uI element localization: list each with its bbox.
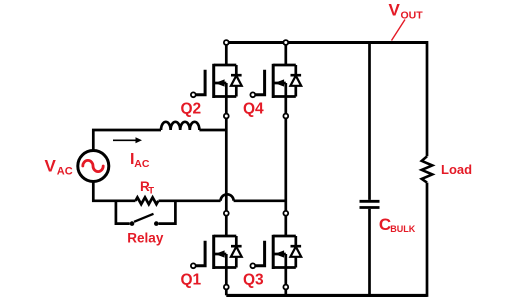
svg-text:Q1: Q1: [181, 271, 202, 288]
transistor Q4 (top-right MOSFET with body diode): [250, 45, 301, 114]
inductor L (boost inductor): [161, 122, 199, 130]
svg-text:Q2: Q2: [181, 100, 202, 117]
wire Q3 source to bottom rail: [284, 289, 287, 295]
svg-text:BULK: BULK: [390, 224, 415, 234]
label Q4: [243, 100, 264, 117]
wire hop to right leg: [234, 199, 286, 202]
wire V_AC top to inductor: [93, 130, 161, 151]
wire R_T to hop: [159, 199, 221, 202]
wire left leg midsection (Q2 source to Q1 drain): [225, 118, 228, 210]
svg-text:V: V: [45, 156, 57, 175]
node source Q2: [224, 114, 229, 119]
label V_OUT: [389, 1, 424, 22]
wire hop over left leg (no connection): [221, 194, 234, 201]
svg-text:Q3: Q3: [243, 271, 264, 288]
wire bottom rail (return bus): [226, 183, 427, 297]
label I_AC: [130, 151, 150, 170]
resistor R_T (inrush thermistor): [136, 197, 159, 204]
wire right leg midsection (Q4 source to Q3 drain): [284, 118, 287, 210]
switch Relay (bypass contact): [116, 201, 175, 226]
svg-text:AC: AC: [134, 158, 150, 170]
label R_T: [140, 179, 154, 196]
label Relay: [127, 230, 164, 245]
capacitor C_BULK: [360, 43, 380, 296]
svg-text:AC: AC: [57, 166, 73, 178]
wire Q1 source to bottom rail: [225, 289, 228, 295]
wire top rail (V_OUT bus): [226, 41, 427, 156]
transistor Q2 (top-left MOSFET with body diode): [191, 45, 242, 114]
svg-text:T: T: [148, 185, 154, 196]
pointer line V_OUT: [392, 20, 406, 41]
node source Q1: [224, 285, 229, 290]
label V_AC: [45, 156, 73, 177]
svg-text:V: V: [389, 1, 401, 20]
arrow I_AC current direction: [113, 137, 142, 143]
node source Q3: [283, 285, 288, 290]
wire V_AC bottom to R_T: [93, 181, 135, 200]
node drain Q2 on top rail: [224, 40, 229, 45]
node drain Q4 on top rail: [283, 40, 288, 45]
label Q3: [243, 271, 264, 288]
label Load: [441, 162, 472, 177]
wire inductor to left leg: [199, 129, 226, 132]
label C_BULK: [379, 215, 416, 234]
svg-text:OUT: OUT: [401, 10, 424, 22]
label Q1: [181, 271, 202, 288]
svg-text:Load: Load: [441, 162, 472, 177]
node source Q4: [283, 114, 288, 119]
svg-text:Q4: Q4: [243, 100, 264, 117]
source V_AC (AC voltage source): [78, 151, 109, 182]
transistor Q1 (bottom-left MOSFET with body diode): [191, 216, 242, 285]
node drain Q1: [224, 211, 229, 216]
svg-text:Relay: Relay: [127, 230, 164, 245]
transistor Q3 (bottom-right MOSFET with body diode): [250, 216, 301, 285]
label Q2: [181, 100, 202, 117]
node drain Q3: [283, 211, 288, 216]
resistor Load: [422, 156, 433, 182]
